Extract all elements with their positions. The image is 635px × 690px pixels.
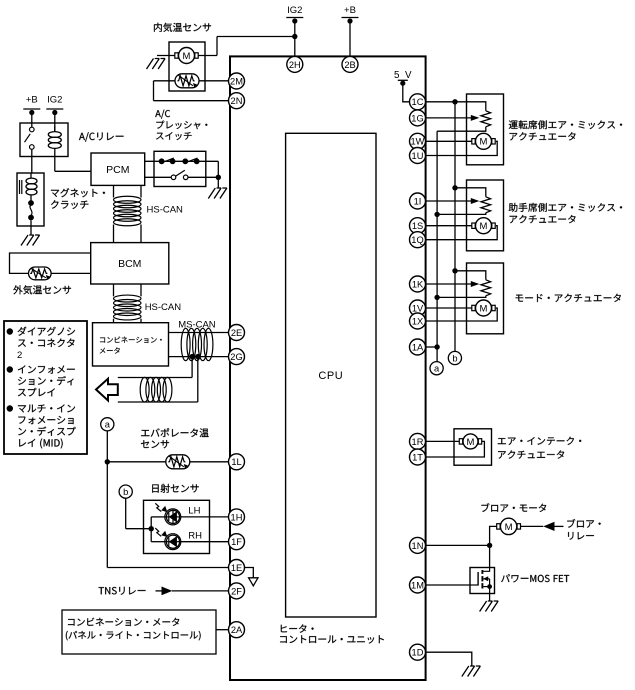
- svg-text:+B: +B: [26, 95, 38, 106]
- svg-text:1S: 1S: [412, 221, 423, 231]
- svg-text:M: M: [505, 522, 513, 533]
- svg-text:1N: 1N: [412, 541, 424, 551]
- svg-text:2E: 2E: [231, 328, 242, 338]
- svg-text:1V: 1V: [412, 303, 424, 313]
- svg-text:1F: 1F: [231, 537, 242, 547]
- svg-text:IG2: IG2: [47, 95, 62, 106]
- svg-text:1Q: 1Q: [411, 235, 423, 245]
- svg-text:2: 2: [17, 350, 22, 361]
- svg-text:IG2: IG2: [287, 5, 302, 16]
- svg-text:HS-CAN: HS-CAN: [145, 302, 182, 313]
- svg-text:M: M: [467, 437, 475, 448]
- svg-text:CPU: CPU: [318, 370, 343, 382]
- svg-text:b: b: [123, 487, 128, 497]
- svg-text:2M: 2M: [230, 76, 243, 86]
- svg-text:1H: 1H: [231, 512, 243, 522]
- svg-text:1R: 1R: [412, 437, 424, 447]
- svg-text:BCM: BCM: [118, 258, 141, 270]
- svg-text:1U: 1U: [412, 151, 424, 161]
- svg-text:+B: +B: [344, 5, 356, 16]
- svg-text:1K: 1K: [412, 279, 424, 289]
- svg-text:a: a: [105, 420, 111, 430]
- svg-text:2N: 2N: [231, 96, 243, 106]
- svg-text:1M: 1M: [411, 580, 424, 590]
- svg-text:1W: 1W: [411, 137, 425, 147]
- svg-text:2B: 2B: [344, 60, 355, 70]
- svg-text:M: M: [480, 221, 488, 232]
- svg-text:1C: 1C: [412, 97, 424, 107]
- svg-text:1I: 1I: [414, 196, 422, 206]
- svg-text:1D: 1D: [412, 648, 424, 658]
- svg-text:M: M: [480, 137, 488, 148]
- svg-text:HS-CAN: HS-CAN: [147, 205, 184, 216]
- svg-text:a: a: [434, 364, 440, 374]
- svg-text:2A: 2A: [231, 625, 243, 635]
- svg-text:RH: RH: [188, 531, 202, 542]
- svg-text:MS-CAN: MS-CAN: [178, 320, 216, 331]
- svg-text:5 V: 5 V: [394, 70, 413, 81]
- svg-text:1X: 1X: [412, 316, 423, 326]
- svg-text:1T: 1T: [412, 452, 423, 462]
- svg-text:2H: 2H: [289, 60, 301, 70]
- svg-text:M: M: [480, 303, 488, 314]
- svg-text:M: M: [183, 51, 191, 62]
- svg-text:1L: 1L: [231, 457, 241, 467]
- svg-text:1G: 1G: [411, 113, 423, 123]
- svg-text:2G: 2G: [230, 352, 242, 362]
- svg-text:PCM: PCM: [106, 164, 129, 176]
- svg-text:1A: 1A: [412, 342, 424, 352]
- svg-text:1E: 1E: [231, 563, 242, 573]
- svg-text:LH: LH: [188, 506, 200, 517]
- svg-text:2F: 2F: [231, 586, 242, 596]
- svg-text:b: b: [452, 353, 457, 363]
